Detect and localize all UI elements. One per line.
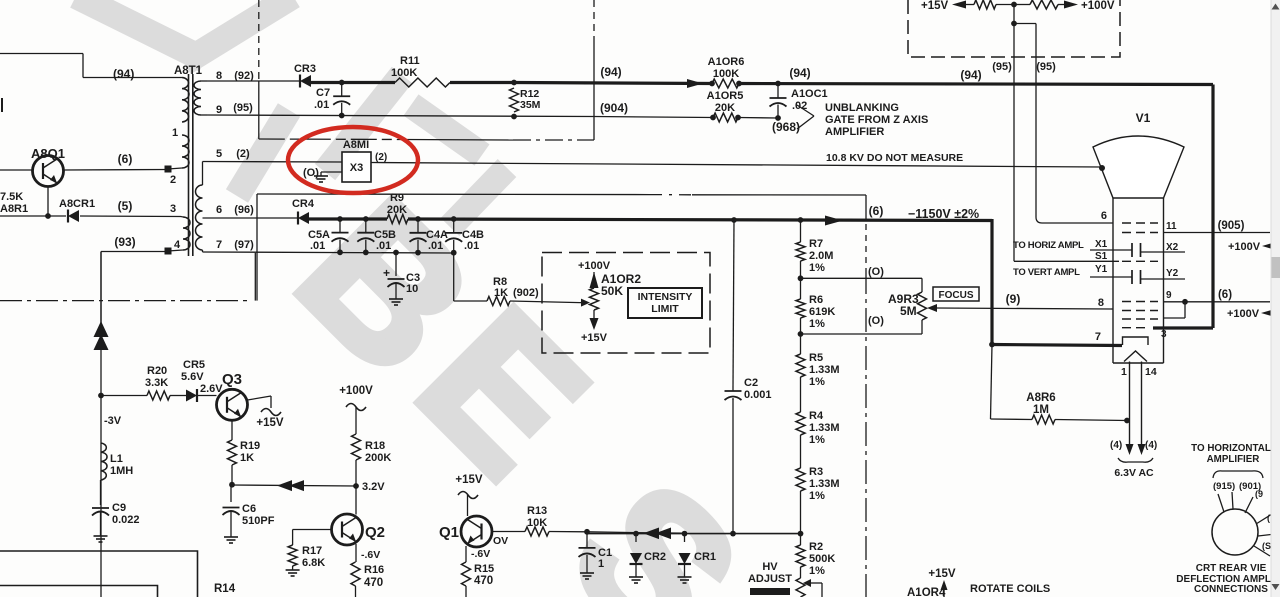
svg-text:1: 1 bbox=[172, 127, 178, 139]
X3 left lead bbox=[321, 171, 342, 173]
dashed box top right bbox=[908, 0, 1120, 57]
svg-text:FOCUS: FOCUS bbox=[939, 290, 974, 301]
svg-text:R13: R13 bbox=[527, 505, 547, 517]
grid row bottom bbox=[1122, 327, 1150, 329]
svg-text:-.6V: -.6V bbox=[471, 548, 490, 560]
crt rear spokes bbox=[1218, 492, 1275, 556]
ground C6 bbox=[230, 534, 232, 537]
pot A10R2 bbox=[590, 288, 599, 310]
shield row S1 bbox=[1122, 260, 1158, 262]
svg-text:(968): (968) bbox=[772, 120, 800, 134]
resistor R8 bbox=[487, 297, 510, 306]
transistor Q3 bbox=[217, 389, 248, 420]
svg-text:1%: 1% bbox=[809, 376, 825, 388]
svg-text:(905): (905) bbox=[1218, 220, 1245, 232]
svg-text:CR2: CR2 bbox=[644, 551, 666, 563]
svg-text:R5: R5 bbox=[809, 352, 823, 364]
wire X3 output 10.8KV bbox=[371, 163, 1102, 168]
svg-text:619K: 619K bbox=[809, 306, 835, 318]
svg-text:6.3V AC: 6.3V AC bbox=[1114, 467, 1154, 479]
Q2 base wire bbox=[293, 529, 332, 531]
svg-text:CR3: CR3 bbox=[294, 63, 316, 75]
thick corner -1150 bbox=[990, 219, 993, 344]
svg-text:(4): (4) bbox=[1145, 440, 1157, 451]
svg-text:.01: .01 bbox=[310, 240, 325, 252]
svg-text:470: 470 bbox=[364, 577, 383, 589]
junction top bbox=[1011, 2, 1017, 8]
A8T1 secondary winding pins 5-6-7 bbox=[196, 185, 203, 250]
svg-text:35M: 35M bbox=[520, 99, 541, 111]
wire to A9R3 top bbox=[801, 277, 923, 279]
svg-text:100K: 100K bbox=[713, 68, 739, 80]
svg-text:A8CR1: A8CR1 bbox=[59, 198, 95, 210]
svg-text:4: 4 bbox=[174, 239, 181, 251]
pot A9R3 5M bbox=[921, 278, 923, 292]
svg-text:(95): (95) bbox=[992, 61, 1012, 73]
svg-text:1: 1 bbox=[598, 558, 604, 570]
intensity limit box bbox=[628, 288, 702, 318]
resistor R9 bbox=[387, 215, 408, 224]
svg-text:10.8 KV DO NOT MEASURE: 10.8 KV DO NOT MEASURE bbox=[826, 152, 963, 164]
Q1 base wire bbox=[493, 531, 526, 533]
svg-text:(9: (9 bbox=[1255, 489, 1263, 499]
svg-text:3: 3 bbox=[1161, 329, 1167, 340]
wire net 93 from pin 4 bbox=[101, 251, 168, 253]
svg-text:+15V: +15V bbox=[581, 332, 608, 344]
wire Y2 stub bbox=[1141, 278, 1186, 280]
svg-text:S1: S1 bbox=[1095, 251, 1108, 262]
underbrace 6.3V bbox=[1118, 458, 1153, 462]
ground C9 bbox=[100, 533, 102, 536]
CRT neck bbox=[1112, 198, 1114, 363]
svg-text:9: 9 bbox=[216, 104, 222, 116]
svg-text:(904): (904) bbox=[600, 101, 628, 115]
svg-text:V1: V1 bbox=[1136, 111, 1151, 125]
Q2 collector wire bbox=[355, 486, 357, 515]
off-page arrow unblanking bbox=[797, 105, 814, 129]
svg-text:A1OR6: A1OR6 bbox=[708, 56, 745, 68]
svg-text:1%: 1% bbox=[809, 490, 825, 502]
svg-text:6: 6 bbox=[1101, 210, 1107, 222]
ground R17 bbox=[292, 566, 294, 570]
capacitor C9 bbox=[100, 480, 102, 505]
box lower-left outer bbox=[0, 551, 198, 597]
wire branch to x1036 bbox=[1014, 23, 1036, 25]
diode CR5 bbox=[186, 389, 197, 401]
ground X3 bbox=[320, 172, 322, 176]
resistor R19 bbox=[228, 440, 237, 465]
svg-text:(S: (S bbox=[1262, 541, 1271, 551]
deflection Y plates bbox=[1131, 270, 1133, 284]
svg-text:A1OR4: A1OR4 bbox=[907, 587, 946, 597]
svg-text:AMPLIFIER: AMPLIFIER bbox=[825, 126, 884, 138]
heater arrows 6.3V bbox=[1126, 444, 1134, 455]
svg-text:8: 8 bbox=[216, 70, 222, 82]
svg-text:+100V: +100V bbox=[339, 385, 373, 397]
resistor R12 bbox=[510, 88, 519, 112]
link pin9 to grid bbox=[1184, 302, 1186, 318]
red highlight ellipse bbox=[288, 127, 418, 193]
junction C1 bbox=[584, 529, 590, 535]
grid row pin8 bbox=[1122, 301, 1158, 303]
focus box bbox=[933, 287, 979, 301]
diode A8CR1 bbox=[68, 210, 79, 222]
svg-text:Q2: Q2 bbox=[365, 524, 385, 541]
svg-text:2.0M: 2.0M bbox=[809, 250, 833, 262]
svg-text:(915): (915) bbox=[1213, 481, 1235, 492]
wire C2 bottom bbox=[732, 399, 734, 534]
grid row mid bbox=[1122, 310, 1158, 312]
junction top second bbox=[1011, 21, 1017, 27]
vertical link x257 bbox=[256, 194, 258, 301]
svg-text:Y2: Y2 bbox=[1166, 268, 1179, 279]
double arrow up net93 bbox=[94, 321, 109, 337]
svg-text:+100V: +100V bbox=[1081, 0, 1115, 12]
svg-text:OV: OV bbox=[493, 535, 508, 547]
diode CR2 bbox=[635, 534, 637, 542]
svg-text:50K: 50K bbox=[601, 284, 623, 298]
svg-text:A8MI: A8MI bbox=[343, 139, 369, 151]
svg-text:CRT REAR VIE: CRT REAR VIE bbox=[1196, 563, 1267, 574]
wire 3.2V to C6 bbox=[231, 485, 356, 486]
hv rail wire bbox=[587, 533, 801, 535]
transformer A8T1 core bbox=[188, 74, 190, 256]
A10R2 up arrow +100V bbox=[593, 272, 595, 283]
junction R19 C6 bbox=[229, 482, 235, 488]
svg-text:C6: C6 bbox=[242, 503, 256, 515]
dashed stub above junction bbox=[258, 0, 260, 80]
svg-text:200K: 200K bbox=[365, 452, 391, 464]
junction heater A8R6 bbox=[1124, 418, 1130, 424]
wire CR2 to CR1 arrows bbox=[636, 532, 685, 535]
svg-text:(97): (97) bbox=[234, 239, 254, 251]
scrollbar thumb bbox=[1272, 257, 1280, 278]
wire net 94 from left edge bbox=[0, 53, 83, 55]
heater wedge bbox=[1124, 351, 1147, 362]
svg-text:-3V: -3V bbox=[104, 415, 122, 427]
A8T1 winding pins 3-4 bbox=[183, 217, 190, 250]
svg-text:R15: R15 bbox=[474, 563, 494, 575]
box lower-left inner bbox=[0, 586, 158, 597]
junction C7 bottom bbox=[339, 113, 345, 119]
capacitor C4B bbox=[451, 216, 457, 222]
svg-text:1.33M: 1.33M bbox=[809, 364, 840, 376]
vertical net 95 b bbox=[1035, 24, 1037, 218]
svg-text:R3: R3 bbox=[809, 466, 823, 478]
svg-text:(94): (94) bbox=[600, 65, 621, 79]
svg-text:3.3K: 3.3K bbox=[145, 377, 168, 389]
svg-text:R6: R6 bbox=[809, 294, 823, 306]
svg-text:100K: 100K bbox=[391, 67, 417, 79]
svg-text:+100V: +100V bbox=[1228, 241, 1261, 253]
svg-text:UNBLANKING: UNBLANKING bbox=[825, 102, 899, 114]
junction CR1 bbox=[682, 531, 688, 537]
svg-text:Y1: Y1 bbox=[1095, 264, 1108, 275]
Q1 emitter bbox=[465, 546, 467, 562]
svg-text:+15V: +15V bbox=[455, 474, 483, 486]
pot HV ADJUST bbox=[800, 572, 802, 578]
wire C2 vertical bbox=[733, 220, 734, 388]
squiggle R18 supply bbox=[346, 404, 366, 411]
svg-text:CONNECTIONS: CONNECTIONS bbox=[1194, 584, 1268, 595]
scrollbar up arrow bbox=[1272, 4, 1280, 10]
squiggle Q3 supply bbox=[261, 409, 281, 416]
wire pin 5 net 2 bbox=[203, 161, 343, 164]
svg-text:INTENSITY: INTENSITY bbox=[638, 291, 693, 303]
svg-text:470: 470 bbox=[474, 575, 493, 587]
svg-text:1%: 1% bbox=[809, 434, 825, 446]
svg-text:TO VERT AMPL: TO VERT AMPL bbox=[1013, 267, 1080, 278]
svg-text:HV: HV bbox=[762, 561, 778, 573]
grid row pin11 bbox=[1122, 232, 1158, 234]
arrow A10R4 bbox=[943, 584, 945, 597]
ground CR1 bbox=[684, 574, 686, 577]
svg-text:5M: 5M bbox=[900, 304, 917, 318]
wire Y1 bbox=[1090, 276, 1132, 278]
pin 4 square junction bbox=[165, 248, 172, 255]
thick wire net 94 after CR3 bbox=[311, 81, 395, 84]
svg-text:.01: .01 bbox=[464, 240, 479, 252]
capacitor C4A bbox=[415, 216, 421, 222]
resistor R16 bbox=[351, 562, 360, 586]
diode CR4 bbox=[298, 212, 309, 224]
capacitor A10C1 bbox=[777, 84, 779, 99]
Q2 emitter bbox=[355, 544, 357, 562]
junction CR2 bbox=[633, 531, 639, 537]
svg-text:0.022: 0.022 bbox=[112, 514, 140, 526]
diode CR1 bbox=[684, 534, 686, 542]
resistor R2 500K bbox=[800, 534, 802, 545]
thick net94 to pin3 bbox=[1211, 85, 1214, 329]
resistor A8R6 1M bbox=[991, 345, 993, 420]
svg-text:-.6V: -.6V bbox=[361, 549, 380, 561]
dash-dot line y300 bbox=[0, 300, 250, 302]
svg-text:(95): (95) bbox=[233, 102, 253, 114]
multiplier A8M1 X3 box bbox=[342, 152, 371, 182]
double arrow mid bbox=[277, 480, 292, 491]
wire y194 link bbox=[257, 193, 650, 196]
svg-text:9: 9 bbox=[1166, 290, 1172, 301]
arrow on net 94 bbox=[687, 79, 703, 88]
svg-text:C7: C7 bbox=[316, 87, 330, 99]
CRT bell bbox=[1093, 136, 1184, 198]
svg-text:7: 7 bbox=[216, 239, 222, 251]
resistor R5 1.33M bbox=[800, 334, 802, 354]
svg-text:TO HORIZ AMPL: TO HORIZ AMPL bbox=[1013, 240, 1084, 251]
svg-text:Q1: Q1 bbox=[439, 524, 459, 541]
wire R8 to pot bbox=[510, 301, 580, 303]
capacitor C6 bbox=[230, 485, 232, 502]
resistor R15 bbox=[462, 562, 471, 586]
junction R20 bbox=[98, 393, 104, 399]
svg-text:3.2V: 3.2V bbox=[362, 481, 385, 493]
capacitor C1 bbox=[586, 532, 588, 548]
wire X3 route upper bbox=[259, 138, 404, 141]
svg-text:A8Q1: A8Q1 bbox=[31, 146, 65, 161]
vertical net 95 a bbox=[1013, 5, 1015, 262]
capacitor C5A bbox=[337, 216, 343, 222]
junction R7-R6 bbox=[798, 275, 804, 281]
svg-text:0.001: 0.001 bbox=[744, 389, 772, 401]
svg-text:1MH: 1MH bbox=[110, 465, 133, 477]
svg-text:CR4: CR4 bbox=[292, 198, 315, 210]
svg-text:R18: R18 bbox=[365, 440, 385, 452]
net 93 vertical bbox=[100, 252, 102, 597]
wire pin 9 net 6 bbox=[1164, 301, 1271, 303]
crt rear view circle bbox=[1212, 509, 1258, 555]
svg-text:CR1: CR1 bbox=[694, 551, 716, 563]
capacitor C3 polarized bbox=[393, 250, 399, 256]
svg-text:(6): (6) bbox=[118, 152, 133, 166]
resistor R20 bbox=[147, 391, 170, 400]
svg-text:1%: 1% bbox=[809, 318, 825, 330]
resistor A10R5 bbox=[713, 113, 738, 122]
svg-text:(96): (96) bbox=[234, 204, 254, 216]
svg-text:GATE FROM Z AXIS: GATE FROM Z AXIS bbox=[825, 114, 928, 126]
link y300 to pin7 rail bbox=[254, 253, 256, 301]
junction A8Q1 emitter bbox=[45, 213, 51, 219]
wire x866 link bbox=[865, 195, 867, 221]
svg-text:R4: R4 bbox=[809, 410, 824, 422]
wire pin 9 net 95/904 bbox=[207, 115, 594, 117]
svg-text:CR5: CR5 bbox=[183, 359, 205, 371]
svg-text:1K: 1K bbox=[494, 287, 508, 299]
svg-text:7.5K: 7.5K bbox=[0, 191, 23, 203]
junction C7 top bbox=[339, 80, 345, 86]
junction A10C1 top bbox=[775, 81, 781, 87]
ground C1 bbox=[586, 570, 588, 573]
svg-text:14: 14 bbox=[1145, 366, 1157, 378]
wire X1 bbox=[1090, 249, 1132, 251]
resistor R17 bbox=[288, 545, 297, 566]
thick rail net 96 bbox=[309, 217, 387, 220]
svg-text:+100V: +100V bbox=[1227, 308, 1260, 320]
svg-text:R14: R14 bbox=[214, 583, 236, 595]
junction R6-R5 bbox=[798, 331, 804, 337]
ground CR2 bbox=[635, 574, 637, 577]
svg-text:X1: X1 bbox=[1095, 239, 1108, 250]
svg-text:(902): (902) bbox=[513, 287, 539, 299]
svg-text:10: 10 bbox=[406, 283, 418, 295]
transistor A8Q1 bbox=[33, 156, 64, 187]
svg-text:510PF: 510PF bbox=[242, 515, 275, 527]
resistor R13 bbox=[525, 527, 549, 536]
junction HV rail bbox=[798, 531, 804, 537]
resistor R11 bbox=[395, 78, 450, 87]
diode CR3 bbox=[300, 75, 311, 87]
wire pin 6 net 96 bbox=[203, 217, 299, 219]
junction R7 top bbox=[798, 217, 804, 223]
double arrow hv rail bbox=[644, 528, 659, 539]
svg-text:20K: 20K bbox=[387, 204, 407, 216]
A8Q1 collector wire net 6 bbox=[64, 169, 169, 172]
stub pin 1 left edge bbox=[1, 98, 3, 112]
svg-text:ROTATE COILS: ROTATE COILS bbox=[970, 583, 1050, 595]
deflection X plates bbox=[1131, 243, 1133, 257]
arrow +15V bbox=[952, 1, 966, 9]
A8T1 primary upper winding bbox=[182, 78, 189, 123]
capacitor C5B bbox=[363, 216, 369, 222]
svg-text:3: 3 bbox=[170, 203, 176, 215]
svg-text:.01: .01 bbox=[428, 240, 443, 252]
scrollbar track bbox=[1271, 0, 1280, 597]
A8Q1 base wire bbox=[0, 169, 33, 171]
ground C3 bbox=[395, 296, 397, 299]
svg-text:1.33M: 1.33M bbox=[809, 478, 840, 490]
wire junction to X3 route bbox=[258, 81, 260, 139]
svg-text:11: 11 bbox=[1166, 221, 1177, 232]
wire C1 to CR2 bbox=[587, 531, 636, 534]
wire pin 7 net 97 bbox=[203, 252, 454, 253]
svg-text:(4): (4) bbox=[1110, 440, 1122, 451]
resistor R18 bbox=[352, 434, 361, 460]
Q3 collector wire bbox=[248, 396, 272, 400]
A8T1 primary winding pins 1-2 bbox=[182, 135, 189, 168]
Q3 emitter bbox=[231, 421, 233, 441]
scrollbar down arrow bbox=[1272, 584, 1280, 590]
svg-text:R16: R16 bbox=[364, 564, 384, 576]
svg-text:(94): (94) bbox=[789, 66, 810, 80]
resistor top A bbox=[974, 0, 996, 9]
svg-text:+15V: +15V bbox=[928, 568, 956, 580]
wire pin 8 net 92 bbox=[207, 80, 300, 82]
svg-text:.01: .01 bbox=[376, 240, 391, 252]
wire pin 8 from focus bbox=[1111, 308, 1113, 310]
svg-text:2: 2 bbox=[170, 174, 176, 186]
svg-text:R7: R7 bbox=[809, 238, 823, 250]
resistor top B bbox=[1030, 0, 1058, 9]
wire R19 to 3.2V bbox=[231, 484, 232, 486]
dash-dot vertical x866 bbox=[865, 224, 867, 270]
capacitor C2 bbox=[732, 388, 734, 391]
svg-text:R2: R2 bbox=[809, 541, 823, 553]
svg-text:(: ( bbox=[1267, 513, 1270, 523]
svg-text:+15V: +15V bbox=[921, 0, 949, 12]
svg-text:+100V: +100V bbox=[578, 260, 611, 272]
wire to R8 bbox=[453, 253, 455, 301]
svg-text:(O): (O) bbox=[868, 266, 884, 278]
svg-text:(6): (6) bbox=[869, 204, 884, 218]
arrow +100V bbox=[1064, 1, 1078, 9]
vertical dashed net top bbox=[593, 0, 595, 42]
svg-text:(9): (9) bbox=[1006, 292, 1021, 306]
junction A8R6 tap bbox=[989, 342, 995, 348]
squiggle Q1 supply bbox=[458, 492, 478, 499]
resistor R4 1.33M bbox=[796, 412, 805, 435]
svg-text:R17: R17 bbox=[302, 545, 322, 557]
svg-text:C9: C9 bbox=[112, 502, 126, 514]
svg-text:1K: 1K bbox=[240, 452, 254, 464]
junction net 968 bbox=[775, 115, 781, 121]
svg-text:C2: C2 bbox=[744, 377, 758, 389]
svg-text:TO HORIZONTAL: TO HORIZONTAL bbox=[1191, 443, 1271, 454]
grid row pin6 bbox=[1122, 222, 1158, 224]
svg-text:+15V: +15V bbox=[256, 417, 284, 429]
junction pin9 bbox=[1182, 299, 1188, 305]
wire net 5 bbox=[0, 215, 66, 217]
A9R3 wiper bbox=[936, 308, 1111, 309]
svg-text:X3: X3 bbox=[350, 162, 363, 174]
svg-text:.01: .01 bbox=[314, 99, 329, 111]
svg-text:6.8K: 6.8K bbox=[302, 557, 325, 569]
svg-text:(2): (2) bbox=[375, 152, 387, 163]
capacitor C7 bbox=[341, 83, 343, 97]
svg-text:10K: 10K bbox=[527, 517, 547, 529]
svg-text:1.33M: 1.33M bbox=[809, 422, 840, 434]
svg-text:R20: R20 bbox=[147, 365, 167, 377]
svg-text:A1OC1: A1OC1 bbox=[791, 88, 828, 100]
svg-text:1%: 1% bbox=[809, 565, 825, 577]
